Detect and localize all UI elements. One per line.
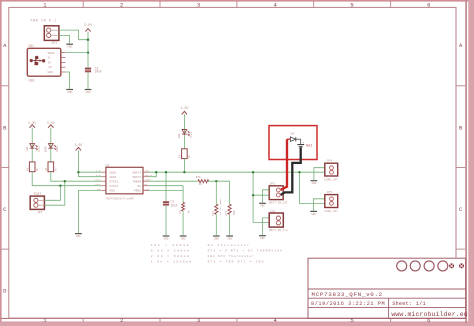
- wire battery plus (thick red): [281, 139, 287, 190]
- svg-text:GND: GND: [97, 188, 102, 191]
- wire: [31, 128, 33, 162]
- fiducial 2: [459, 263, 464, 268]
- wire JP1 pin1 to 5.0V rail: [59, 30, 88, 40]
- svg-text:GND: GND: [311, 213, 316, 216]
- svg-text:2: 2: [120, 2, 123, 9]
- svg-text:JP5: JP5: [326, 191, 332, 194]
- net name labels right of IC: [144, 170, 153, 191]
- resistor R4: [179, 149, 191, 159]
- svg-text:LOAD_JST: LOAD_JST: [324, 179, 338, 182]
- ground under USB: [66, 90, 73, 94]
- resistor RT1 (horizontal): [196, 176, 209, 186]
- svg-text:1k: 1k: [187, 155, 191, 159]
- svg-text:GND: GND: [227, 237, 232, 240]
- svg-text:RT1 = 5 RT1 + NC THERM=10k: RT1 = 5 RT1 + NC THERM=10k: [208, 249, 283, 253]
- wire RT2 to GND: [215, 214, 217, 235]
- op-amp U1 MCP73833: [94, 163, 152, 200]
- node junction THERM: [215, 180, 217, 182]
- svg-text:ID: ID: [48, 66, 52, 69]
- svg-text:U1: U1: [106, 163, 110, 167]
- svg-text:CHG: CHG: [26, 146, 29, 151]
- ground at JP2: [259, 203, 266, 207]
- node junction STAT1: [64, 180, 66, 182]
- svg-text:GND: GND: [260, 205, 265, 208]
- wire THERM to RT1: [149, 180, 199, 182]
- pin stubs left: [102, 172, 106, 190]
- svg-text:5.0V: 5.0V: [181, 106, 189, 110]
- resistor R3 2k (PROG): [179, 202, 190, 213]
- node junction LOAD2: [298, 171, 300, 173]
- wire RT3 drop: [229, 181, 231, 204]
- resistor RT3: [226, 204, 236, 216]
- wire: [183, 114, 185, 148]
- svg-text:10k = 100mA: 10k = 100mA: [151, 243, 191, 247]
- svg-text:STAT2: STAT2: [109, 185, 118, 188]
- svg-text:5.0V: 5.0V: [84, 23, 92, 27]
- svg-text:R1: R1: [27, 167, 30, 171]
- USB connector CN1: [27, 44, 65, 83]
- wire LOAD2 branch: [299, 172, 324, 203]
- svg-text:10uF: 10uF: [170, 203, 178, 207]
- svg-text:GND: GND: [109, 189, 114, 192]
- wire RT3 to GND: [229, 214, 231, 235]
- svg-text:2: 2: [120, 317, 123, 324]
- svg-text:10uF: 10uF: [94, 69, 102, 73]
- node junction rail top: [252, 171, 254, 173]
- ground at LOAD1: [311, 181, 318, 185]
- svg-text:THERM: THERM: [132, 180, 141, 183]
- svg-text:BATT_IN_0.1: BATT_IN_0.1: [269, 229, 288, 232]
- svg-text:LED2: LED2: [56, 146, 59, 153]
- svg-text:PROG: PROG: [134, 189, 141, 192]
- pin names: [48, 52, 55, 74]
- svg-text:5.0V: 5.0V: [96, 170, 102, 173]
- node VBUS junction top: [87, 38, 90, 41]
- resistor R1: [27, 162, 39, 172]
- wire PG: [149, 185, 184, 187]
- ground under JP1: [66, 44, 73, 48]
- svg-text:3: 3: [197, 2, 200, 9]
- wire 5V to VDD pins: [78, 150, 101, 176]
- supply 5.0V LED2 branch: [47, 121, 55, 128]
- wire STAT pin2 up: [44, 181, 64, 205]
- LED1 (CHG): [26, 144, 41, 153]
- supply 5.0V LED3 branch: [181, 106, 189, 115]
- wire LOAD2 gnd: [314, 199, 325, 211]
- svg-text:GND: GND: [67, 46, 72, 49]
- svg-text:R4: R4: [179, 154, 182, 158]
- pin stubs right: [143, 172, 149, 190]
- svg-text:Bat: Bat: [306, 144, 312, 148]
- svg-text:JP7: JP7: [37, 211, 43, 215]
- svg-text:STAT1: STAT1: [94, 179, 101, 182]
- header JP1 PWR IN 0.1: [31, 19, 59, 47]
- pin stubs: [61, 53, 66, 72]
- wire IC GND pin: [78, 191, 101, 233]
- supply 5.0V (top): [84, 23, 92, 40]
- LED2 (DONE): [44, 144, 59, 153]
- svg-text:5.0k = 200mA: 5.0k = 200mA: [151, 249, 191, 253]
- ground under RT3: [226, 236, 233, 240]
- wire: [50, 128, 52, 162]
- svg-text:3: 3: [197, 317, 200, 324]
- supply 5.0V at IC: [75, 143, 83, 150]
- svg-text:CN1: CN1: [28, 44, 34, 48]
- svg-text:5: 5: [350, 2, 353, 9]
- svg-text:RT3: RT3: [226, 210, 229, 215]
- ground under R3: [180, 236, 187, 240]
- title block: [308, 258, 468, 318]
- wire battery minus (thick black): [281, 148, 301, 195]
- svg-text:D4: D4: [291, 133, 295, 136]
- svg-text:JP2: JP2: [270, 182, 276, 185]
- connector JP3 BATT_IN_0.1: [269, 210, 288, 232]
- highlight box (battery annotation): [269, 126, 317, 160]
- wire VBUS to rail: [65, 52, 88, 54]
- supply 5.0V LED1 branch: [28, 121, 36, 128]
- wire VBAT main rail: [149, 171, 325, 173]
- svg-text:GND: GND: [260, 237, 265, 240]
- svg-text:D+: D+: [48, 61, 52, 64]
- svg-text:6: 6: [427, 2, 430, 9]
- svg-text:GND: GND: [48, 71, 53, 74]
- svg-text:R3: R3: [179, 210, 182, 214]
- svg-text:JP4: JP4: [326, 160, 332, 163]
- svg-text:MCP73833_QFN_v0.2: MCP73833_QFN_v0.2: [312, 291, 383, 298]
- header JP7 STAT: [30, 192, 44, 214]
- svg-text:10k NTC Thermistor: 10k NTC Thermistor: [208, 254, 255, 258]
- wire 5V rail down: [87, 40, 89, 68]
- connector JP4 LOAD_JST: [324, 160, 338, 182]
- wire JP3 gnd: [262, 218, 269, 235]
- node junction rail JP2: [252, 194, 254, 196]
- svg-text:DONE: DONE: [44, 146, 47, 153]
- svg-text:10k NTC THERM: 10k NTC THERM: [219, 198, 222, 216]
- svg-text:VBUS: VBUS: [48, 52, 55, 55]
- capacitor C2 10uF: [85, 66, 102, 73]
- ground under C2: [85, 90, 92, 94]
- battery Bat: [297, 139, 312, 148]
- node junction R4/VBAT: [183, 171, 185, 173]
- svg-text:R2: R2: [45, 167, 48, 171]
- ground at LOAD2: [310, 211, 317, 215]
- ground under IC: [75, 234, 82, 238]
- connector JP2 BATT_IN_JST: [269, 182, 288, 204]
- wire PROG: [149, 186, 184, 203]
- svg-text:STAT1: STAT1: [109, 180, 118, 183]
- svg-text:RT2: RT2: [212, 210, 215, 215]
- svg-text:No Thermistor: No Thermistor: [208, 243, 251, 247]
- ground at JP3: [259, 236, 266, 240]
- wire VBAT2 tie: [149, 172, 157, 177]
- node junction STAT2: [59, 185, 61, 187]
- svg-text:1.0k = 1000mA: 1.0k = 1000mA: [151, 259, 193, 263]
- svg-text:BATT_IN_JST: BATT_IN_JST: [269, 201, 288, 204]
- svg-text:RT1 = TBD RT2 = TBD: RT1 = TBD RT2 = TBD: [208, 260, 265, 263]
- svg-text:VBAT1: VBAT1: [132, 171, 141, 174]
- wire C2 to GND: [87, 72, 89, 89]
- resistor R2: [45, 162, 57, 172]
- svg-text:PWR IN 0.1: PWR IN 0.1: [31, 19, 57, 23]
- node junction VDD: [77, 171, 79, 173]
- svg-text:LED3: LED3: [190, 132, 193, 139]
- fiducial 1: [449, 263, 454, 268]
- svg-text:GND: GND: [312, 182, 317, 185]
- wire 2k to GND: [182, 211, 184, 235]
- mounting hole circles: [397, 261, 407, 271]
- connector JP5 LOAD_JST: [324, 191, 338, 213]
- node VBUS junction at USB: [87, 51, 89, 53]
- svg-text:1k: 1k: [199, 182, 203, 186]
- ground under RT2: [213, 236, 220, 240]
- wire R2 to STAT1: [51, 172, 102, 182]
- svg-text:5.0V: 5.0V: [75, 143, 83, 147]
- wire C1 drop: [165, 172, 167, 201]
- svg-text:GND: GND: [67, 91, 72, 94]
- svg-text:JP1: JP1: [51, 42, 57, 46]
- svg-text:PWR: PWR: [178, 133, 181, 138]
- wire LOAD1 gnd: [314, 168, 325, 180]
- svg-text:8/19/2016 3:22:21 PM: 8/19/2016 3:22:21 PM: [311, 301, 385, 307]
- svg-text:D-: D-: [48, 57, 52, 60]
- svg-text:LED1: LED1: [37, 146, 40, 153]
- svg-text:5.0V: 5.0V: [96, 174, 102, 177]
- wire USB GND: [65, 72, 69, 89]
- USB trident icon: [30, 56, 45, 65]
- svg-text:GND: GND: [214, 237, 219, 240]
- wire JP2 gnd: [263, 190, 269, 203]
- svg-text:2k: 2k: [186, 210, 190, 214]
- svg-text:LOAD_JST: LOAD_JST: [324, 210, 338, 213]
- svg-text:GND: GND: [181, 237, 186, 240]
- svg-text:1k: 1k: [35, 168, 39, 172]
- wire RT1 to RT3: [208, 180, 230, 182]
- ground under C1: [163, 236, 170, 240]
- svg-text:STAT2: STAT2: [94, 183, 101, 186]
- note text block: [151, 243, 283, 263]
- resistor RT2 10k NTC: [212, 198, 222, 216]
- svg-text:VDD1: VDD1: [109, 171, 116, 174]
- svg-text:USB: USB: [29, 79, 35, 83]
- svg-text:GND: GND: [164, 237, 169, 240]
- svg-text:GND: GND: [86, 91, 91, 94]
- svg-text:RT1: RT1: [196, 176, 201, 179]
- svg-text:TBD: TBD: [233, 210, 236, 215]
- LED3 (PWR): [178, 130, 193, 139]
- wire battery VBAT rail down: [253, 172, 269, 222]
- wire RT2 drop: [215, 181, 217, 204]
- svg-text:2.0k = 500mA: 2.0k = 500mA: [151, 254, 191, 258]
- capacitor C1 10uF: [163, 200, 178, 208]
- net name labels left of IC: [94, 170, 101, 191]
- svg-text:www.microbuilder.eu: www.microbuilder.eu: [391, 311, 467, 318]
- svg-text:VBAT2: VBAT2: [132, 176, 141, 179]
- svg-text:VDD2: VDD2: [109, 176, 116, 179]
- wire C1 to GND: [165, 206, 167, 236]
- wire JP1 pin2 to GND: [59, 35, 70, 43]
- wire R4 to VBAT: [183, 159, 185, 173]
- svg-text:Sheet: 1/1: Sheet: 1/1: [392, 301, 426, 307]
- svg-text:PG: PG: [138, 185, 142, 188]
- wire R1 to STAT2: [32, 172, 102, 186]
- svg-text:GND: GND: [76, 235, 81, 238]
- diode D4: [287, 133, 301, 142]
- node junction C1: [165, 171, 167, 173]
- wire STAT pin1 up: [44, 186, 60, 201]
- svg-text:1k: 1k: [53, 168, 57, 172]
- svg-text:MCP73833/4-xxMF: MCP73833/4-xxMF: [107, 196, 134, 200]
